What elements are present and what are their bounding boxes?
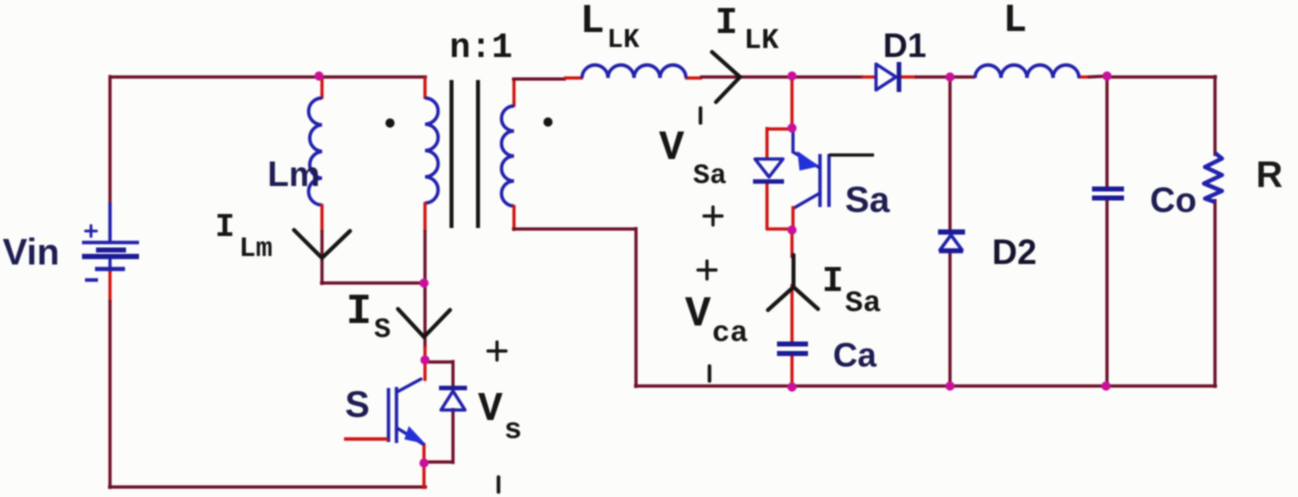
svg-text:I: I [715,2,738,45]
svg-text:Co: Co [1150,181,1197,220]
svg-text:ca: ca [712,317,748,351]
svg-text:I: I [346,287,372,336]
svg-text:Lm: Lm [239,234,273,265]
svg-text:D1: D1 [883,27,926,65]
svg-text:D2: D2 [992,233,1037,272]
svg-text:Lm: Lm [268,155,321,194]
svg-text:V: V [478,387,503,433]
svg-text:Sa: Sa [845,179,890,220]
svg-text:S: S [345,384,370,425]
svg-text:LK: LK [607,26,640,56]
svg-text:I: I [822,261,844,302]
svg-text:Vin: Vin [3,232,60,273]
svg-text:V: V [659,124,685,172]
svg-text:n:1: n:1 [450,28,513,68]
svg-text:LK: LK [744,24,779,57]
svg-text:V: V [685,290,711,339]
svg-text:Sa: Sa [693,161,727,192]
svg-text:L: L [580,0,605,45]
svg-text:s: s [504,414,522,448]
svg-text:I: I [215,209,235,246]
svg-text:S: S [374,315,391,346]
svg-text:Ca: Ca [833,337,878,375]
svg-text:L: L [1003,0,1027,44]
svg-text:R: R [1256,154,1283,195]
svg-text:Sa: Sa [845,287,881,321]
